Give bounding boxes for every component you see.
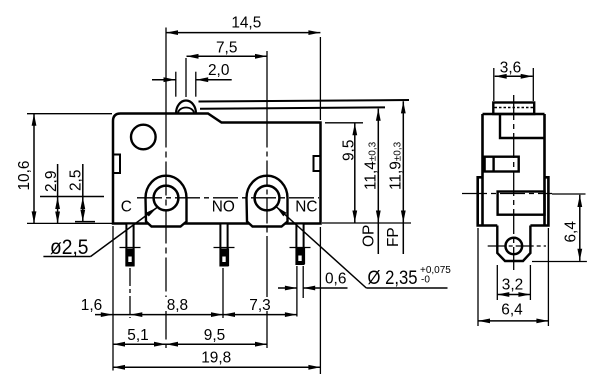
dimension row 5,1 / 9,5 <box>113 327 267 347</box>
svg-text:14,5: 14,5 <box>231 15 261 32</box>
lever top edge <box>199 100 410 102</box>
dimension 19,8 <box>113 350 320 370</box>
side terminal hole <box>506 238 523 255</box>
dimension 3,6 <box>494 60 534 102</box>
svg-text:19,8: 19,8 <box>201 350 231 367</box>
side vertical centerline <box>513 95 515 270</box>
anchor line for 2,9 and 2,5 <box>40 196 104 198</box>
svg-text:ø2,5: ø2,5 <box>50 235 89 259</box>
lever bottom edge <box>200 107 385 108</box>
svg-text:0,6: 0,6 <box>325 271 346 288</box>
centerline C terminal vertical <box>165 28 167 114</box>
plunger dome inner arc <box>178 108 194 114</box>
dimension 7,5 <box>187 40 268 59</box>
extension line body right top <box>319 37 321 120</box>
side tab bottom extension <box>532 261 587 263</box>
dimension 14,5 <box>166 15 320 36</box>
svg-text:5,1: 5,1 <box>127 327 148 344</box>
svg-text:1,6: 1,6 <box>81 297 102 314</box>
svg-text:8,8: 8,8 <box>167 297 188 314</box>
horizontal centerline front view <box>137 197 319 199</box>
side body outline <box>478 114 549 226</box>
dimension 2,0 <box>152 62 232 82</box>
extension line pin NC left edge <box>296 266 298 317</box>
svg-text:-0: -0 <box>421 275 430 286</box>
side terminal tab <box>497 226 530 262</box>
C terminal hole <box>154 186 179 211</box>
svg-text:Ø 2,35: Ø 2,35 <box>368 268 418 289</box>
extension line plunger left <box>175 72 177 97</box>
dimension 0,6 <box>278 271 348 291</box>
svg-text:10,6: 10,6 <box>16 161 33 191</box>
leader label diameter 2,5 <box>43 206 158 259</box>
dimension 6,4 horizontal <box>478 228 548 326</box>
leader label diameter 2,35 <box>274 205 451 289</box>
svg-text:7,3: 7,3 <box>249 297 270 314</box>
svg-text:6,4: 6,4 <box>563 221 580 243</box>
left edge notch <box>113 155 120 174</box>
dimension 11,4 +-0,3 <box>363 109 381 254</box>
extension line plunger right <box>195 72 197 97</box>
svg-text:NO: NO <box>212 198 235 215</box>
svg-text:2,5: 2,5 <box>68 170 85 191</box>
extension line body left bottom <box>112 226 114 371</box>
extension line plunger center <box>185 58 187 97</box>
svg-text:2,0: 2,0 <box>208 62 229 79</box>
side plunger <box>493 103 534 115</box>
dimension 10,6 <box>16 114 112 224</box>
svg-text:9,5: 9,5 <box>204 327 225 344</box>
pin C <box>120 224 141 267</box>
mounting hole top-left <box>131 125 156 150</box>
svg-text:3,6: 3,6 <box>500 60 521 77</box>
extension line pin C center <box>129 268 131 318</box>
extension line body top right for 9,5 <box>325 122 363 124</box>
NC terminal boss <box>247 176 288 227</box>
svg-text:C: C <box>121 199 132 216</box>
side hole centerline <box>488 245 546 247</box>
plunger dome outer arc <box>176 101 196 114</box>
side plunger seam dashed <box>495 107 534 109</box>
svg-text:2,9: 2,9 <box>43 171 60 192</box>
right edge notch <box>314 156 321 171</box>
switch body outline (front view) <box>113 114 321 224</box>
svg-text:7,5: 7,5 <box>216 40 237 57</box>
svg-text:6,4: 6,4 <box>501 302 523 319</box>
svg-text:OP: OP <box>361 225 378 247</box>
side notch rectangle <box>485 157 519 172</box>
dimension 9,5 <box>341 123 358 223</box>
NC terminal hole <box>255 186 280 211</box>
dimension 2,5 <box>68 164 96 222</box>
dimension 3,2 <box>497 265 530 300</box>
extension line pin NC right edge <box>302 266 304 298</box>
extension line body bottom right <box>322 222 411 224</box>
centerline NC terminal vertical <box>266 51 268 123</box>
svg-text:9,5: 9,5 <box>341 140 358 161</box>
dimension 2,9 <box>43 164 60 224</box>
extension line body right bottom <box>319 227 321 374</box>
extension line pin NO center <box>222 268 224 318</box>
svg-text:NC: NC <box>295 198 317 215</box>
pin NC <box>290 224 311 265</box>
svg-text:3,2: 3,2 <box>502 277 523 294</box>
dimension 6,4 vertical <box>563 195 583 261</box>
dimension row 1,6 / 8,8 / 7,3 <box>81 297 297 317</box>
side body step <box>500 114 545 138</box>
side horizontal centerline <box>462 193 552 195</box>
side inner rectangle <box>498 192 545 215</box>
pin NO <box>214 224 235 267</box>
dimension 11,9 +-0,3 <box>388 101 406 254</box>
svg-text:FP: FP <box>385 227 402 247</box>
C terminal boss <box>146 176 187 227</box>
